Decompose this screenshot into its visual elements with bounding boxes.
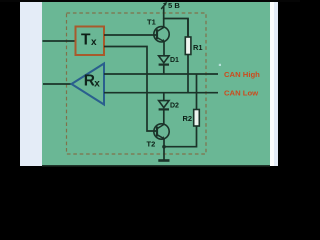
wire 5V branch to R1 (164, 19, 188, 38)
diode D2 (159, 101, 179, 110)
wire Tx input (left lead into Tx) (43, 40, 76, 42)
svg-text:R: R (84, 73, 95, 90)
wire T2 emitter to ground junction (163, 138, 165, 146)
svg-text:D2: D2 (170, 103, 179, 110)
wire R1 bottom lead to CAN Low (187, 55, 189, 93)
stray light speck artifact (219, 64, 221, 66)
svg-text:T: T (81, 31, 91, 48)
ground symbol (158, 147, 169, 161)
node junction dot at ground (162, 145, 166, 149)
wire CAN Low to D2 anode (163, 93, 165, 101)
diode D1 (159, 56, 179, 65)
wire R2 bottom lead to ground junction (164, 126, 197, 147)
svg-text:CAN Low: CAN Low (224, 89, 258, 98)
wire Tx top output to T1 base (104, 34, 157, 36)
power 5V supply arrow (161, 1, 180, 19)
transceiver block dashed boundary (67, 13, 207, 154)
wire R1 top lead from 5V branch (187, 19, 189, 38)
wire Rx output (left lead from Rx) (43, 83, 72, 85)
wire T1 emitter to D1 (163, 41, 165, 56)
wire D2 cathode to T2 collector (163, 109, 165, 124)
svg-text:5 В: 5 В (168, 1, 180, 10)
svg-text:x: x (91, 37, 97, 48)
resistor R1 (185, 37, 202, 55)
transistor T2 (147, 124, 170, 149)
top dark letterbox edge (0, 0, 300, 2)
svg-text:x: x (94, 78, 100, 89)
svg-text:CAN High: CAN High (224, 70, 260, 79)
node CAN Low bus line (104, 92, 218, 94)
svg-text:R1: R1 (193, 43, 203, 52)
block Tx (76, 27, 105, 56)
wire D1 cathode to CAN High (163, 65, 165, 74)
wire 5V rail down to T1 collector (163, 19, 165, 28)
svg-text:T1: T1 (147, 17, 156, 26)
wire Tx bottom output down to T2 base (104, 47, 157, 132)
svg-text:R2: R2 (183, 114, 193, 123)
node CAN High bus line (104, 73, 218, 75)
svg-text:T2: T2 (147, 139, 156, 148)
resistor R2 (183, 110, 200, 127)
svg-text:D1: D1 (170, 57, 179, 64)
block Rx (comparator triangle) (72, 64, 105, 105)
wire CAN High down to R2 (196, 74, 198, 110)
transistor T1 (147, 17, 169, 42)
